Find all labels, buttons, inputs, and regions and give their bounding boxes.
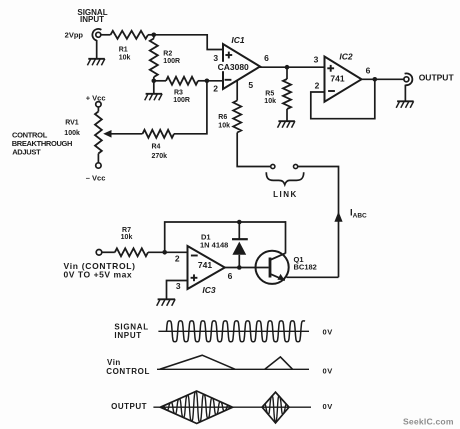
resistor R4 (143, 130, 175, 138)
svg-text:3: 3 (213, 53, 218, 63)
svg-text:CA3080: CA3080 (218, 62, 249, 72)
diode D1 1N4148 (238, 222, 240, 239)
svg-text:270k: 270k (152, 153, 168, 160)
svg-text:– Vcc: – Vcc (86, 173, 106, 182)
resistor R6 (236, 80, 238, 100)
svg-text:INPUT: INPUT (114, 331, 141, 340)
input terminal Vin (96, 250, 102, 256)
svg-text:OUTPUT: OUTPUT (111, 402, 147, 411)
svg-text:R7: R7 (122, 227, 131, 234)
svg-text:RV1: RV1 (65, 119, 79, 126)
LINK terminal right (294, 164, 298, 168)
svg-text:2Vpp: 2Vpp (65, 30, 84, 39)
svg-text:3: 3 (176, 281, 181, 291)
op-amp IC2 triangle (325, 57, 362, 102)
LINK terminal left (271, 164, 275, 168)
LINK curly brace (266, 172, 303, 184)
Q1 emitter stroke (270, 274, 285, 281)
resistor R3 (154, 80, 166, 82)
svg-text:ADJUST: ADJUST (12, 147, 41, 156)
svg-text:IC1: IC1 (231, 35, 245, 45)
svg-text:R6: R6 (218, 114, 227, 121)
svg-text:2: 2 (175, 254, 180, 264)
terminal +Vcc (96, 102, 101, 107)
IC1 plus input symbol (225, 54, 232, 56)
node A (R1/R2 junction) (152, 33, 157, 38)
output waveform axis (153, 406, 311, 408)
ground below input jack (88, 58, 105, 60)
IC3 feedback rail (165, 222, 286, 252)
svg-text:0V: 0V (323, 327, 333, 336)
potentiometer RV1 (97, 107, 99, 112)
resistor R7 (115, 248, 148, 256)
IC3 pin 3 ground wire (167, 281, 188, 300)
svg-text:R4: R4 (152, 144, 161, 151)
wire R1 to node A (148, 34, 154, 36)
IC1 minus input symbol (225, 79, 232, 81)
svg-text:741: 741 (330, 73, 344, 83)
output jack J2 (404, 77, 409, 82)
output AM envelope 2 diamond (262, 392, 289, 423)
svg-text:0V TO +5V max: 0V TO +5V max (64, 269, 133, 279)
node H (D1 anode / IC3 out) (237, 265, 242, 270)
svg-text:10k: 10k (121, 234, 133, 241)
vin control triangle 1 (160, 355, 236, 369)
Q1 emitter wire (287, 276, 339, 278)
svg-text:100R: 100R (163, 58, 180, 65)
svg-text:2: 2 (213, 84, 218, 94)
IABC arrow (current direction) (334, 212, 342, 222)
svg-text:R5: R5 (265, 90, 274, 97)
resistor R1 (111, 31, 149, 39)
node F (R7 / feedback junction) (162, 250, 167, 255)
op-amp IC1 triangle (223, 44, 260, 89)
wire LINK right to IABC drop (298, 167, 339, 278)
svg-text:R1: R1 (119, 46, 128, 53)
svg-text:10k: 10k (119, 55, 131, 62)
svg-text:R2: R2 (163, 50, 172, 57)
svg-text:SeekIC.com: SeekIC.com (403, 416, 454, 426)
svg-text:IC2: IC2 (339, 51, 353, 61)
svg-text:100k: 100k (64, 130, 80, 137)
svg-text:CONTROL: CONTROL (106, 367, 150, 376)
input jack J1 (signal input terminal) (96, 32, 101, 37)
resistor R2 (153, 35, 155, 39)
svg-text:OUTPUT: OUTPUT (419, 72, 455, 82)
resistor R5 (286, 67, 288, 79)
terminal -Vcc (96, 163, 101, 168)
node G (rail / D1 cathode) (237, 220, 242, 225)
Q1 collector stroke (270, 253, 285, 260)
svg-text:2: 2 (315, 81, 320, 91)
Q1 base bar (269, 258, 272, 278)
svg-text:1N 4148: 1N 4148 (200, 240, 228, 249)
svg-text:6: 6 (264, 53, 269, 63)
wire Vin to R7 (102, 251, 115, 253)
Q1 collector wire (285, 221, 287, 253)
wire node F to IC3 pin 2 (165, 251, 188, 253)
ground below R5 (278, 120, 295, 122)
vin control waveform axis (157, 368, 309, 370)
label CA3080 (216, 62, 250, 71)
IC2 feedback loop wire (311, 79, 375, 118)
svg-text:+ Vcc: + Vcc (86, 93, 106, 102)
wire IC2 output to output jack (361, 78, 404, 80)
svg-text:6: 6 (228, 271, 233, 281)
svg-text:5: 5 (248, 80, 253, 90)
ground below output jack (397, 100, 414, 102)
svg-text:INPUT: INPUT (80, 15, 104, 24)
wire node A to IC1 pin 3 (154, 35, 224, 50)
op-amp IC3 triangle (188, 246, 225, 289)
RV1 wiper arrow (110, 133, 143, 135)
svg-text:6: 6 (366, 66, 371, 76)
vin control triangle 2 (265, 357, 293, 369)
wire IC3 output to Q1 base (224, 267, 269, 269)
svg-text:741: 741 (198, 260, 212, 270)
svg-text:3: 3 (314, 55, 319, 65)
svg-text:IC3: IC3 (202, 285, 216, 295)
ground below IC3 pin 3 (158, 298, 176, 300)
IC3 plus input symbol (191, 277, 198, 279)
node E (IC2 out / feedback / output) (373, 77, 378, 82)
svg-text:10k: 10k (264, 98, 276, 105)
signal input sine waveform (167, 321, 306, 342)
svg-text:R3: R3 (174, 89, 183, 96)
svg-text:Vin: Vin (107, 358, 121, 367)
ground below R2 (153, 81, 155, 94)
transistor Q1 circle (256, 251, 289, 284)
wire node C to IC1 pin 2 (207, 80, 224, 82)
wire input jack to R1 (101, 34, 110, 36)
IC2 plus input symbol (327, 67, 334, 69)
svg-text:0V: 0V (323, 366, 333, 375)
node B (R2/R3/ground junction) (152, 79, 157, 84)
svg-text:100R: 100R (173, 97, 190, 104)
output AM envelope 1 diamond (160, 391, 232, 424)
svg-text:10k: 10k (218, 123, 230, 130)
node D (IC1 out / R5 / IC2 in) (285, 65, 290, 70)
output AM carrier 1 (160, 391, 232, 422)
svg-text:LINK: LINK (273, 190, 298, 199)
output AM carrier 2 (262, 396, 289, 422)
signal input waveform axis (158, 330, 309, 332)
wire IC1 output to IC2 pin 3 (259, 66, 324, 68)
svg-text:0V: 0V (323, 402, 333, 411)
IC2 minus input symbol (328, 90, 335, 92)
svg-text:BC182: BC182 (294, 262, 317, 271)
IC3 minus input symbol (191, 255, 198, 257)
node C (R3/R4/IC1 pin2 junction) (205, 79, 210, 84)
